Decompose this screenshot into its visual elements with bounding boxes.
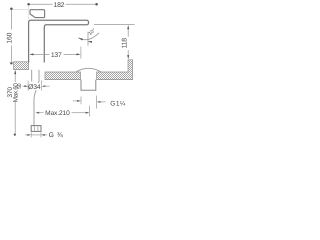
svg-text:Max.210: Max.210 [45,110,70,117]
svg-text:G1¼: G1¼ [110,101,126,108]
svg-text:137: 137 [51,52,62,59]
svg-text:182: 182 [54,2,65,9]
svg-text:G ⅜: G ⅜ [49,132,64,139]
svg-text:Ø34: Ø34 [28,84,41,91]
svg-text:118: 118 [122,38,129,49]
svg-text:50: 50 [17,83,23,89]
svg-text:160: 160 [6,32,13,43]
